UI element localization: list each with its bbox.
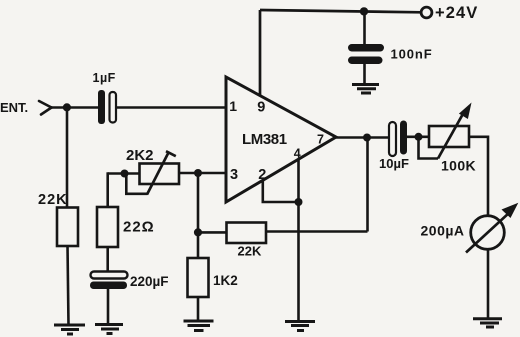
wire output column down (pin7 node to feedback)	[366, 138, 369, 232]
wire C1 to op-amp pin 1	[116, 106, 226, 109]
svg-text:22K: 22K	[38, 192, 68, 208]
wire 2K2 wiper loop	[126, 175, 147, 194]
resistor R4 1K2	[188, 258, 209, 297]
ground (input 22K)	[54, 325, 85, 334]
ground (220uF)	[95, 325, 123, 334]
terminal +24V (open circle)	[421, 7, 432, 18]
wire input to C1	[52, 106, 99, 109]
ground (pins 2,4)	[285, 322, 315, 331]
svg-text:22K: 22K	[238, 244, 262, 259]
wire C2 to ground	[107, 289, 110, 325]
wire C4 to 100K	[407, 136, 429, 139]
svg-text:+24V: +24V	[435, 4, 478, 22]
svg-text:1µF: 1µF	[93, 71, 116, 85]
wire 100K to meter column	[469, 137, 488, 216]
wire R3 to C 220uF	[106, 247, 109, 272]
wire 100K wiper L-link	[419, 138, 439, 159]
svg-text:1: 1	[229, 98, 237, 114]
node output junction	[363, 134, 371, 142]
svg-text:1K2: 1K2	[213, 273, 238, 288]
svg-text:100K: 100K	[441, 158, 476, 174]
wire feedback node to 22K	[198, 231, 227, 234]
svg-text:ENT.: ENT.	[0, 100, 28, 115]
wire 1K2 to ground	[197, 297, 200, 321]
node pin3 junction	[194, 169, 202, 177]
node after C4	[415, 133, 423, 141]
trimpot R2 2K2 (rect + wiper diagonal)	[140, 151, 180, 194]
ground (100nF)	[352, 85, 379, 94]
wire input junction down to R 22K	[66, 108, 69, 209]
svg-text:4: 4	[294, 147, 301, 161]
wire +24V top rail	[260, 10, 422, 12]
capacitor C2 220uF (outline top plate + solid bottom plate)	[90, 272, 128, 290]
svg-text:10µF: 10µF	[379, 156, 409, 171]
wire pin 9 riser to +V rail	[259, 10, 262, 96]
node input junction	[63, 103, 71, 111]
svg-text:9: 9	[257, 100, 265, 116]
wire R1 to ground	[68, 246, 69, 326]
wire pin 2 drop and across	[263, 180, 299, 202]
op-amp U1 LM381 triangle	[226, 77, 336, 202]
svg-text:200µA: 200µA	[421, 223, 465, 239]
wire meter to ground	[487, 250, 490, 319]
wire 100nF to ground	[363, 64, 366, 84]
svg-text:LM381: LM381	[242, 131, 287, 148]
wire pin 7 output	[336, 136, 389, 139]
wire pin 4 down to ground	[297, 159, 300, 321]
resistor R5 22K feedback	[227, 223, 267, 244]
resistor R1 22K (input shunt)	[57, 208, 78, 247]
node 1K2 / 22K feedback junction	[194, 228, 202, 236]
svg-text:7: 7	[317, 133, 324, 147]
node 2K2 left junction	[121, 170, 129, 178]
node pin2/pin4 junction	[295, 198, 303, 206]
wire left terminal of 2K2	[108, 172, 140, 175]
capacitor C3 100nF (two solid plates)	[348, 44, 384, 64]
capacitor C4 10uF (outline + solid plate)	[389, 121, 407, 157]
wire 2K2 left down to R 22ohm	[106, 172, 109, 207]
svg-text:22Ω: 22Ω	[123, 219, 155, 236]
ground (meter)	[473, 319, 502, 327]
input connector arrow	[39, 101, 52, 115]
meter M1 200uA (circle + arrow)	[466, 203, 518, 253]
wire 2K2 right to op-amp pin 3	[179, 172, 226, 175]
trimpot R6 100K (rect + arrow)	[429, 103, 472, 159]
svg-text:220µF: 220µF	[130, 274, 169, 289]
resistor R3 22ohm	[97, 207, 118, 247]
wire pin3 junction down to R 1K2	[197, 173, 200, 258]
ground (1K2)	[184, 321, 214, 331]
svg-text:100nF: 100nF	[391, 47, 433, 62]
svg-text:2K2: 2K2	[126, 147, 154, 164]
svg-text:3: 3	[230, 167, 238, 183]
node rail / 100nF junction	[360, 7, 368, 15]
capacitor C1 1uF (electrolytic: solid + outline plate)	[98, 90, 116, 124]
wire 22K to output column	[266, 230, 368, 233]
wire rail to 100nF	[363, 11, 366, 45]
